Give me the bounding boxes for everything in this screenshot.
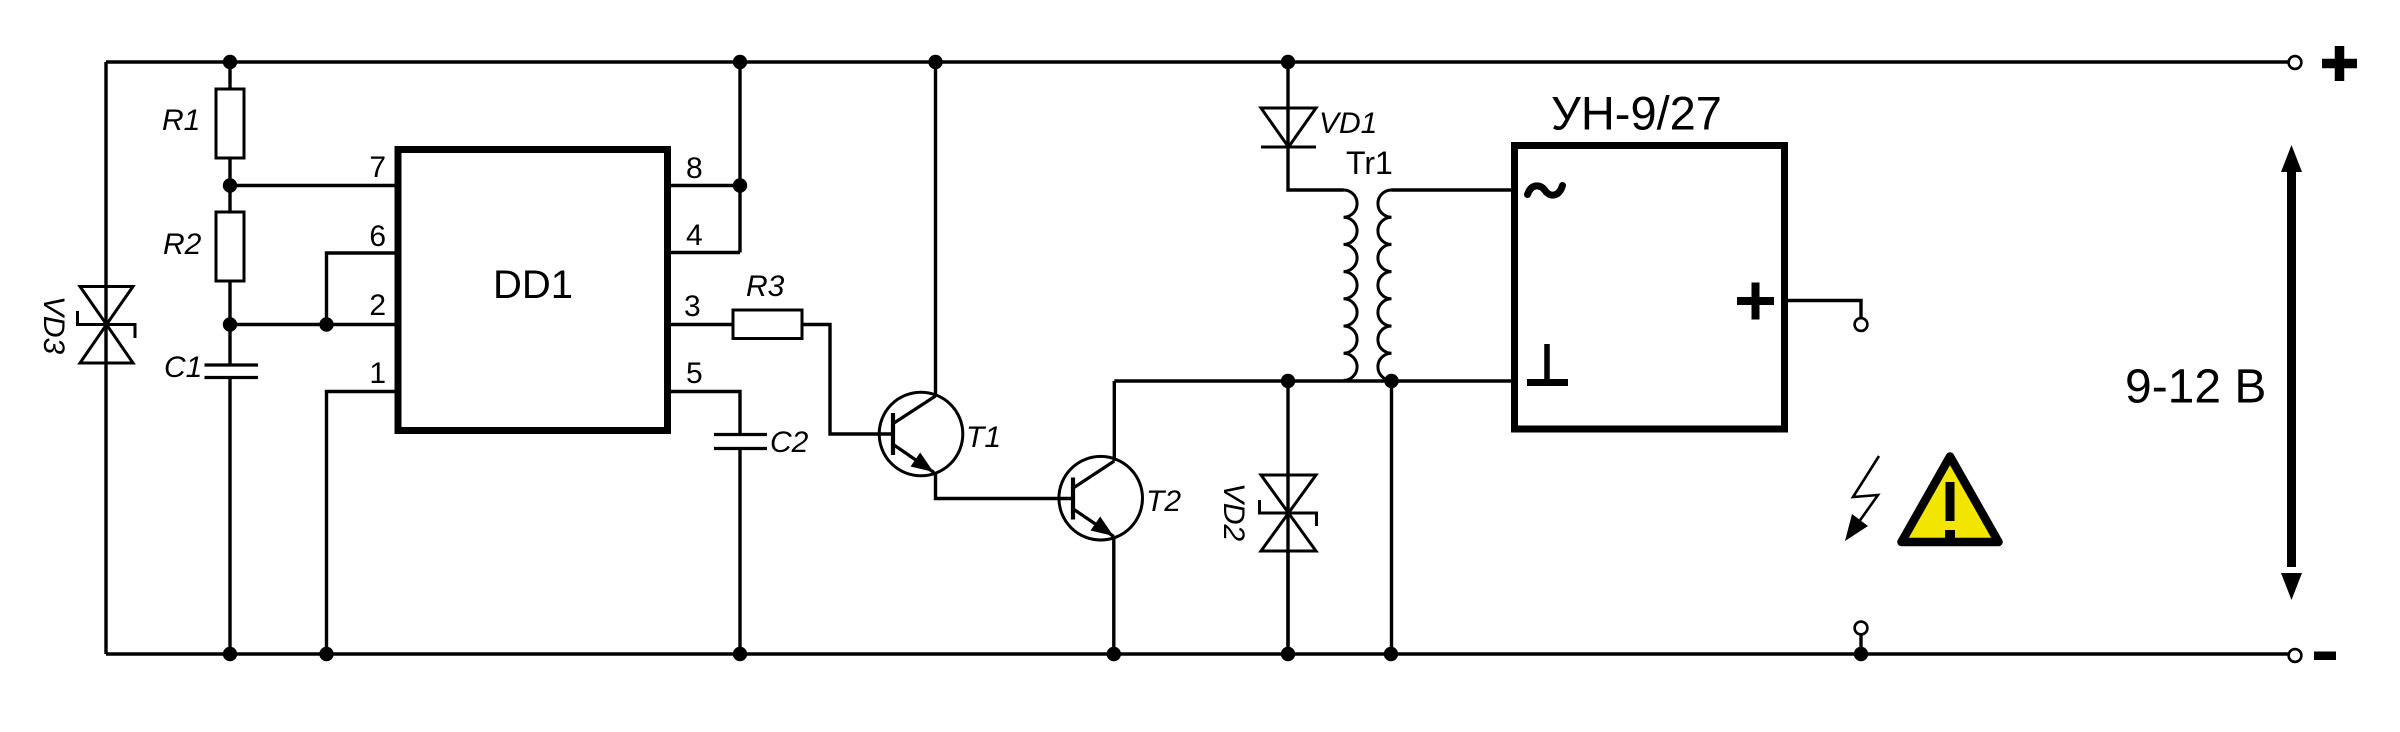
IC DD1 [398, 150, 668, 431]
terminal output return [1855, 622, 1868, 635]
wire bottom rail [106, 652, 2288, 655]
node pin2-pin6 junction [319, 317, 333, 331]
symbol minus supply [2314, 652, 2336, 661]
node pin1 ground junction [319, 647, 333, 661]
resistor R2 [216, 212, 244, 281]
wire top rail to pin8 drop [738, 62, 741, 253]
terminal output plus [1855, 318, 1868, 331]
svg-text:DD1: DD1 [493, 263, 573, 307]
node top rail x230 [223, 55, 237, 69]
svg-text:4: 4 [686, 219, 703, 252]
wire T2 collector [1113, 381, 1116, 461]
node output return ground [1854, 647, 1868, 661]
diode VD1 [1261, 108, 1316, 147]
transformer Tr1 secondary winding [1378, 190, 1392, 380]
svg-text:R3: R3 [746, 270, 785, 303]
wire R1-R2 link [228, 158, 231, 212]
node pin8 junction [733, 178, 747, 192]
wire secondary bottom drop [1390, 381, 1393, 654]
wire pin 6 [327, 253, 398, 325]
wire pin 2 [230, 323, 397, 326]
node top rail x935 [928, 55, 942, 69]
wire amplifier output [1786, 301, 1861, 318]
node top rail x740 [733, 55, 747, 69]
node VD2 ground [1281, 647, 1295, 661]
lightning bolt icon [1845, 456, 1879, 541]
svg-text:УН-9/27: УН-9/27 [1551, 87, 1722, 140]
wire common net y382 [1114, 379, 1511, 382]
svg-text:VD2: VD2 [1217, 483, 1250, 542]
symbol ground pin [1527, 344, 1568, 383]
resistor R3 [733, 310, 802, 339]
transistor T2 [1059, 456, 1143, 543]
svg-text:1: 1 [369, 357, 386, 390]
wire left vertical [104, 62, 107, 654]
wire C2 bottom lead [738, 449, 741, 655]
node C2 ground junction [733, 647, 747, 661]
wire pin 1 [327, 392, 398, 655]
svg-text:6: 6 [369, 220, 386, 253]
symbol plus output [1737, 283, 1774, 320]
terminal plus supply [2289, 56, 2302, 69]
transistor T1 [879, 392, 963, 479]
node secondary ground [1384, 647, 1398, 661]
svg-text:C1: C1 [164, 351, 202, 384]
wire pin 3 [668, 323, 733, 326]
resistor R1 [216, 89, 244, 158]
capacitor C2 [714, 435, 767, 449]
svg-text:VD1: VD1 [1319, 107, 1377, 140]
svg-text:T1: T1 [966, 421, 1001, 454]
wire R1 top lead [228, 62, 231, 89]
diac VD2 [1260, 475, 1317, 551]
svg-text:VD3: VD3 [37, 296, 70, 355]
svg-text:T2: T2 [1146, 485, 1181, 518]
svg-text:R2: R2 [163, 228, 202, 261]
warning triangle icon [1902, 457, 1999, 543]
wire C1 bottom lead [228, 378, 231, 655]
svg-text:7: 7 [369, 151, 386, 184]
wire R2 bottom lead [228, 281, 231, 365]
symbol plus supply [2322, 46, 2357, 81]
svg-text:R1: R1 [162, 104, 200, 137]
node VD2 top junction [1281, 374, 1295, 388]
wire output return stub [1859, 635, 1862, 654]
wire pin 7 [230, 184, 397, 187]
wire pin 8 [668, 184, 740, 187]
capacitor C1 [205, 365, 259, 378]
diac VD3 [78, 287, 136, 364]
wire T1 collector [934, 62, 937, 397]
wire T2 emitter lead [1112, 537, 1115, 655]
svg-text:C2: C2 [770, 426, 809, 459]
wire secondary top to amplifier [1392, 188, 1512, 191]
svg-text:Tr1: Tr1 [1346, 145, 1393, 181]
terminal minus supply [2289, 649, 2302, 662]
wire top rail [106, 60, 2288, 63]
node R1-R2 junction [223, 178, 237, 192]
wire R3 to T1 base [802, 325, 893, 435]
wire pin 4 [668, 251, 740, 254]
svg-text:2: 2 [369, 289, 386, 322]
symbol AC input tilde [1528, 186, 1563, 196]
amplifier U1 box [1515, 146, 1785, 430]
wire VD1 anode lead [1286, 62, 1289, 147]
node R2-C1 junction [223, 317, 237, 331]
node top rail x1288 [1281, 55, 1295, 69]
node T2 emitter ground [1107, 647, 1121, 661]
wire VD2 bottom lead [1286, 551, 1289, 654]
svg-text:8: 8 [686, 152, 703, 185]
arrow voltage range [2281, 145, 2302, 600]
svg-text:9-12 В: 9-12 В [2125, 361, 2266, 414]
wire pin 5 [668, 392, 740, 435]
wire VD2 top lead [1286, 381, 1289, 654]
wire T1 emitter to T2 base [936, 472, 1074, 499]
transformer Tr1 primary winding [1344, 190, 1358, 380]
wire VD1 to primary top [1288, 147, 1344, 190]
node secondary bottom junction [1384, 374, 1398, 388]
node C1 ground junction [223, 647, 237, 661]
svg-text:3: 3 [684, 290, 701, 323]
svg-text:5: 5 [686, 357, 703, 390]
